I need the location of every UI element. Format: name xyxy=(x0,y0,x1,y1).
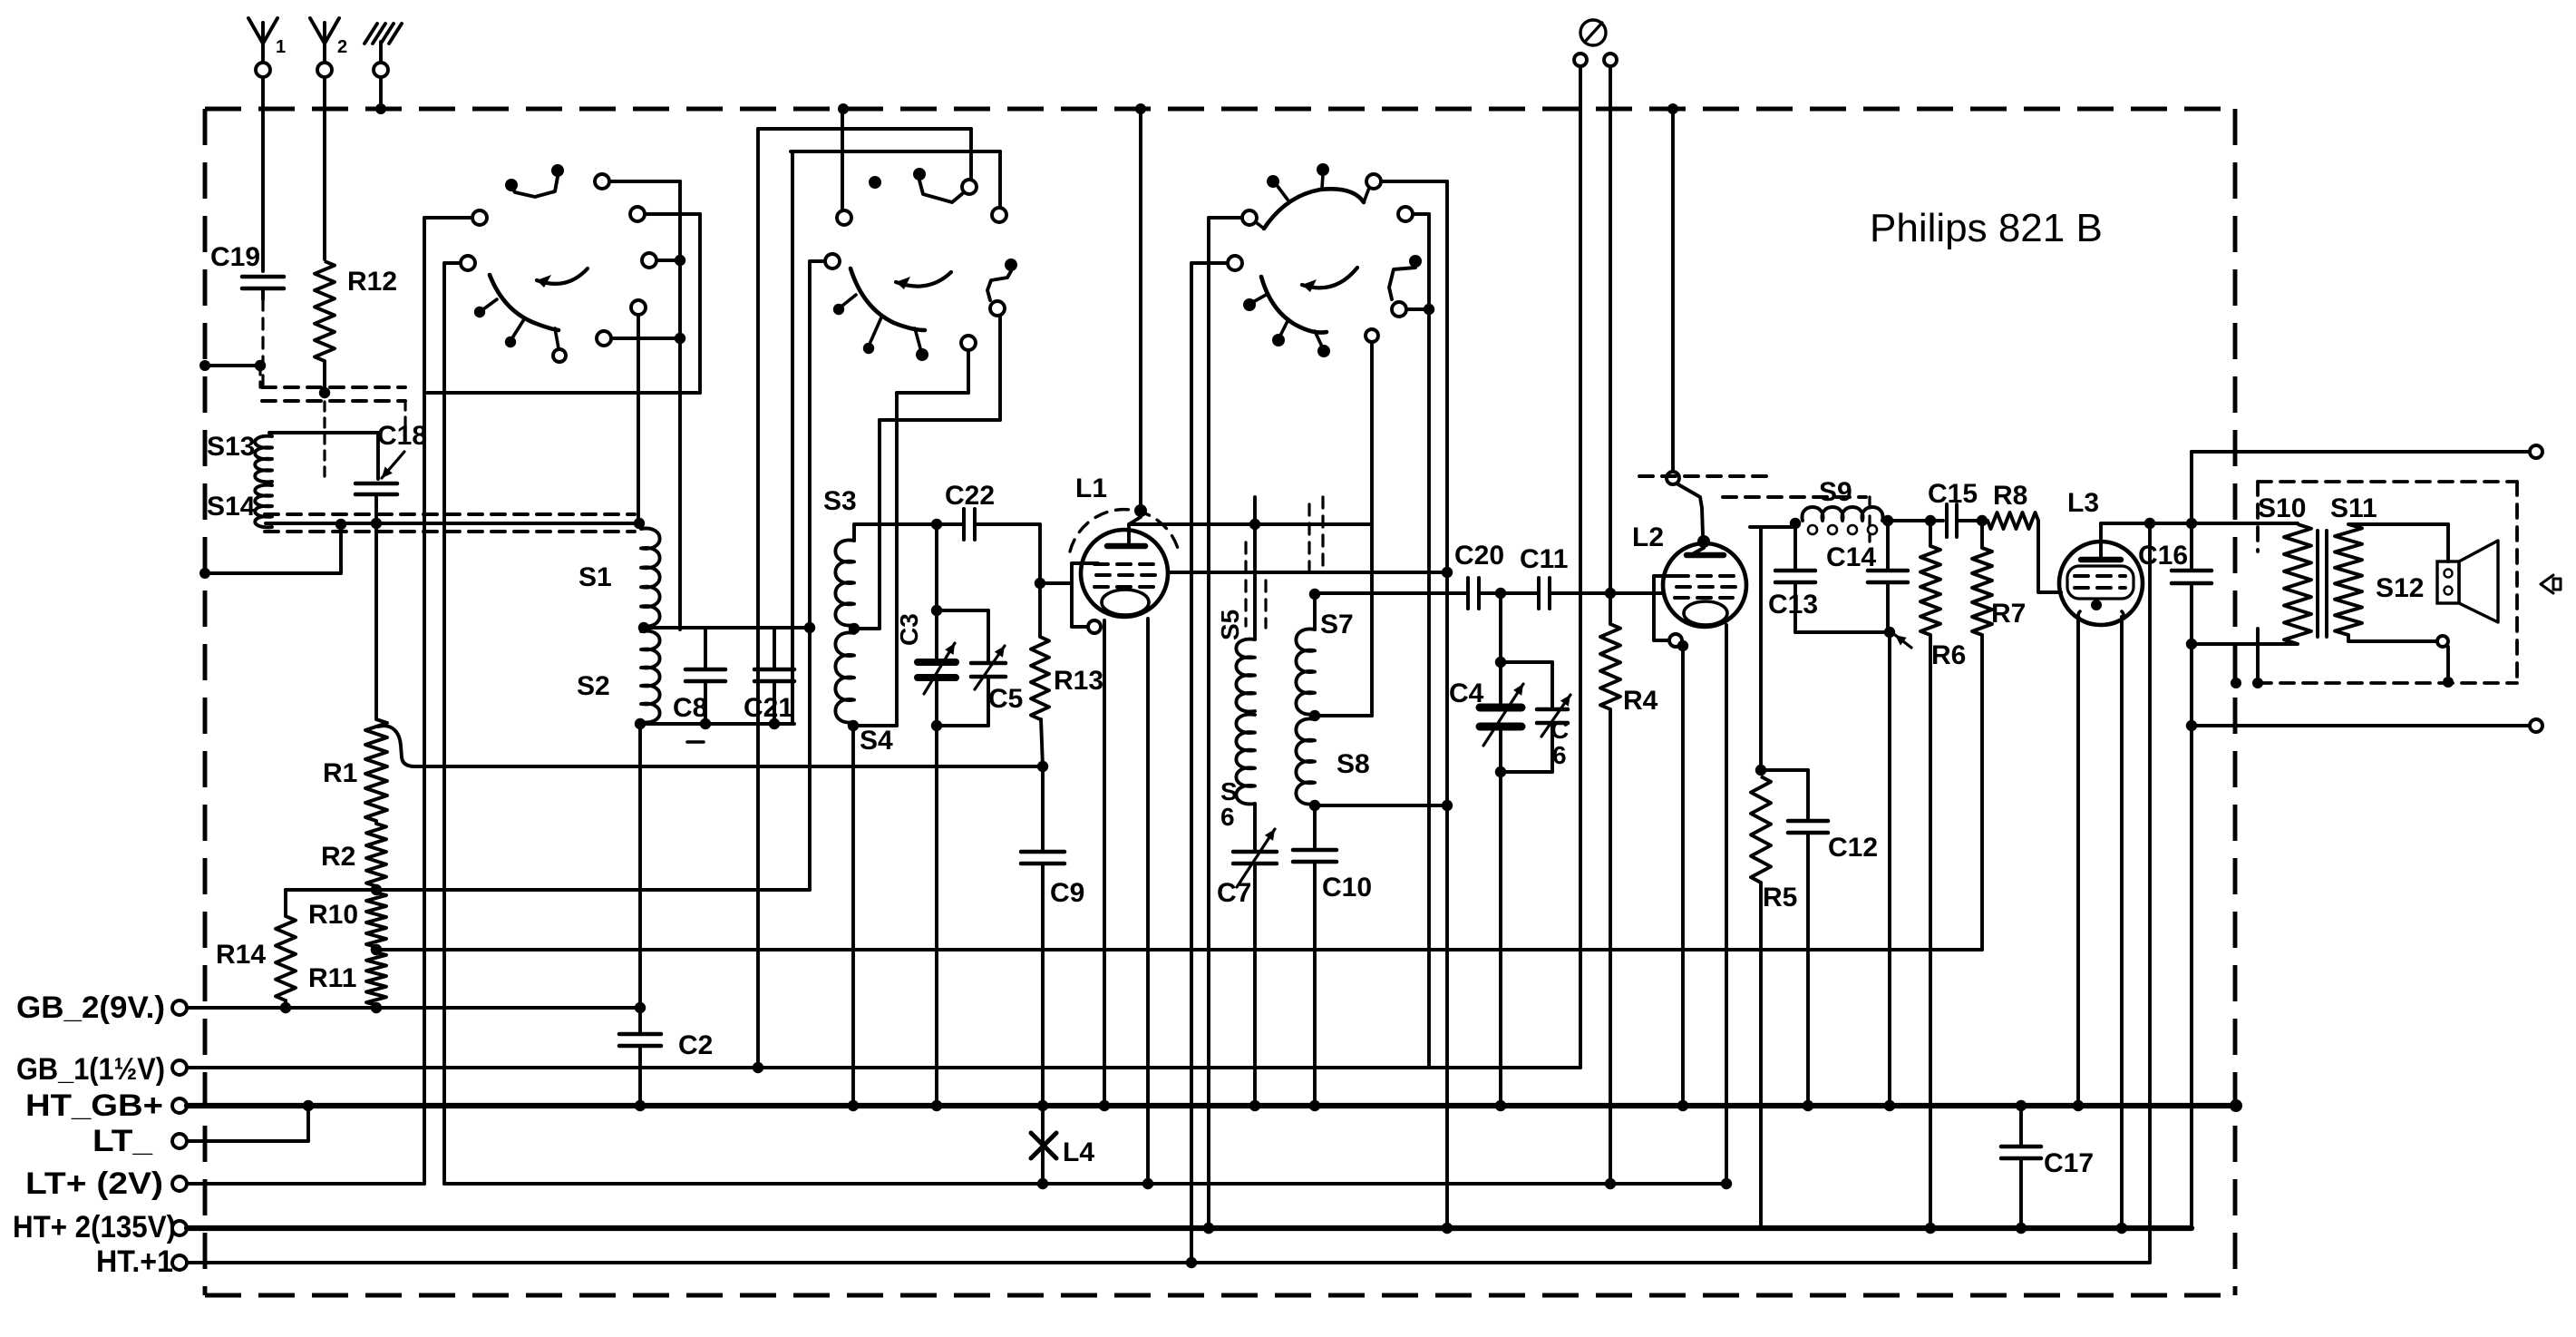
wire L1 filament left xyxy=(1103,620,1106,1106)
switch SW1 arrow xyxy=(537,268,588,288)
svg-text:C10: C10 xyxy=(1322,873,1372,903)
svg-text:HT_GB+: HT_GB+ xyxy=(25,1088,163,1123)
wire L2 filament right xyxy=(1725,625,1728,1184)
wire C11 to L2 grid xyxy=(1550,588,1663,599)
wire S14 row dashed upper xyxy=(265,512,635,516)
svg-text:L3: L3 xyxy=(2067,488,2099,518)
svg-text:S5: S5 xyxy=(1216,610,1244,640)
resistor R11 label xyxy=(308,963,356,993)
coil S4 xyxy=(835,632,859,731)
svg-text:C13: C13 xyxy=(1768,590,1818,620)
svg-text:R12: R12 xyxy=(347,267,397,297)
wire L1 grid row xyxy=(1168,567,1453,578)
capacitor C12 label xyxy=(1828,833,1878,863)
wire S1 tap row xyxy=(644,622,815,633)
capacitor C13 xyxy=(1775,523,1815,632)
wire C19 shield dashed xyxy=(261,299,264,385)
resistor R6 xyxy=(1920,521,1940,1228)
capacitor C11 label xyxy=(1520,544,1568,574)
coil S13 label xyxy=(207,432,255,462)
resistor R14 label xyxy=(216,940,266,970)
svg-text:S14: S14 xyxy=(207,492,256,522)
capacitor C14 label xyxy=(1826,542,1876,572)
capacitor C18 label xyxy=(377,421,427,451)
capacitor C22 xyxy=(964,509,975,540)
coil S1 xyxy=(638,529,660,634)
capacitor C2 label xyxy=(678,1030,713,1060)
capacitor C12 xyxy=(1761,770,1828,1106)
svg-text:S1: S1 xyxy=(578,562,612,592)
svg-text:C15: C15 xyxy=(1928,479,1978,509)
svg-text:C12: C12 xyxy=(1828,833,1878,863)
wire L2 filament left xyxy=(1681,646,1685,1106)
coil S7 xyxy=(1296,589,1320,721)
resistor R12 label xyxy=(347,267,397,297)
wire SW3 right drop 2 xyxy=(1445,181,1449,1228)
coil S8 xyxy=(1296,718,1320,811)
svg-text:HT+ 2(135V): HT+ 2(135V) xyxy=(13,1210,176,1244)
resistor R10 xyxy=(366,893,386,955)
capacitor C3 xyxy=(918,524,956,731)
transformer S11 label xyxy=(2330,493,2377,523)
svg-text:S: S xyxy=(1220,777,1238,805)
capacitor C5 label xyxy=(988,684,1023,714)
coil S13 xyxy=(255,436,272,483)
wire chassis to SW2 xyxy=(841,109,844,210)
wire grid ring to cap xyxy=(1677,483,1703,535)
wire chassis dashed border right xyxy=(2233,109,2238,1295)
coil S8 label xyxy=(1337,749,1370,779)
tube L1 label xyxy=(1075,473,1107,503)
wire SW3 right drop 1 xyxy=(1427,214,1431,1068)
wire L3 filament left xyxy=(2076,619,2080,1106)
capacitor C11 xyxy=(1539,578,1550,609)
tube L3 label xyxy=(2067,488,2099,518)
coil shield dashes b xyxy=(1264,581,1267,628)
switch SW1 contact c xyxy=(595,174,680,189)
transformer S10 label xyxy=(2258,493,2306,523)
wire C15 to R8 xyxy=(1957,515,1988,526)
wire S4 down xyxy=(851,726,855,1106)
wire L1 grid cap up xyxy=(1139,109,1142,504)
speaker icon xyxy=(2541,575,2561,593)
svg-text:R11: R11 xyxy=(308,963,356,993)
svg-text:R7: R7 xyxy=(1991,599,2026,629)
wire SW1 right drop 2 xyxy=(698,214,702,393)
resistor R12 xyxy=(315,261,335,361)
svg-text:S13: S13 xyxy=(207,432,255,462)
wire L2 cathode bracket xyxy=(1654,576,1688,651)
wire L1 plate row xyxy=(1129,519,1372,530)
wire SW1 right drop 1 xyxy=(678,181,682,629)
svg-text:6: 6 xyxy=(1552,741,1567,769)
wire LT- row xyxy=(187,1106,308,1141)
wire C13 junction down xyxy=(1888,632,1891,1106)
capacitor C4 arrow xyxy=(1483,684,1523,746)
wire L2 plate to S9 xyxy=(1750,525,1795,529)
wire C8 C21 bottom row xyxy=(637,718,794,729)
switch SW3 contact right mid xyxy=(1389,255,1434,317)
capacitor C2 xyxy=(619,1008,661,1106)
svg-text:1: 1 xyxy=(276,37,286,57)
terminal GB-1 label xyxy=(16,1052,165,1087)
coil S14 label xyxy=(207,492,256,522)
wire SW3 left drop 2 xyxy=(1203,218,1214,1234)
lamp L4 xyxy=(1031,1106,1056,1184)
wire S11 top xyxy=(2348,524,2448,561)
svg-text:GB_1(1½V): GB_1(1½V) xyxy=(16,1052,165,1087)
capacitor C19 label xyxy=(210,242,260,272)
switch SW2 contact a xyxy=(837,210,851,225)
wire SW2 frame outer xyxy=(758,127,971,131)
terminal HT+1 label xyxy=(96,1244,173,1279)
svg-text:HT.+1: HT.+1 xyxy=(96,1244,173,1279)
node chassis top junction D xyxy=(1667,103,1678,114)
coil S6 xyxy=(1236,715,1255,805)
wire chassis to L2 grid xyxy=(1671,109,1675,472)
wire L1 filament right xyxy=(1146,619,1150,1184)
node chassis left junction B xyxy=(199,568,210,579)
resistor R7 label xyxy=(1991,599,2026,629)
resistor R13 label xyxy=(1054,666,1103,696)
speaker S12 xyxy=(2437,541,2498,622)
node chassis top junction C xyxy=(1135,103,1146,114)
transformer S11 xyxy=(2335,524,2362,635)
terminal HT+2 xyxy=(172,1221,187,1235)
wire shield stub xyxy=(205,360,266,371)
svg-text:R5: R5 xyxy=(1763,883,1797,912)
lamp L4 label xyxy=(1063,1137,1094,1167)
wire SW2-e down xyxy=(880,316,1000,629)
antenna Y2 xyxy=(310,18,347,77)
svg-text:L2: L2 xyxy=(1632,522,1664,552)
svg-text:2: 2 xyxy=(337,37,347,57)
wire speaker box dashed top xyxy=(2258,480,2517,483)
wire ground to chassis xyxy=(379,77,383,109)
wire speaker box dashed left xyxy=(2256,482,2260,551)
capacitor C5 xyxy=(937,610,1006,726)
wire S8 bottom row xyxy=(1315,800,1453,811)
capacitor C9 xyxy=(1021,766,1064,1106)
resistor R1 xyxy=(365,719,387,821)
svg-text:L4: L4 xyxy=(1063,1137,1094,1167)
tube L3 xyxy=(2059,542,2143,625)
wire Y2 down xyxy=(323,77,326,259)
wire S14 row xyxy=(266,518,645,529)
coil S2 label xyxy=(577,671,610,701)
switch SW1 top contact wire xyxy=(505,164,564,197)
coil S9 xyxy=(1790,507,1893,534)
terminal LT+ xyxy=(172,1176,187,1191)
wire SW3 contact-a wire xyxy=(1209,216,1242,220)
capacitor C22 label xyxy=(945,481,995,511)
resistor R2 xyxy=(366,821,386,886)
coil S7 label xyxy=(1320,610,1354,639)
wire S2 down xyxy=(635,724,646,1013)
resistor R4 xyxy=(1600,588,1620,1184)
resistor R7 xyxy=(1972,521,1992,950)
coil S14 xyxy=(255,485,272,528)
node minus mark xyxy=(687,740,704,744)
svg-text:R1: R1 xyxy=(323,758,357,788)
resistor R10 label xyxy=(308,900,358,930)
capacitor C6 label xyxy=(1550,716,1569,769)
capacitor C15 label xyxy=(1928,479,1978,509)
switch SW2 contact b xyxy=(913,168,977,202)
wire S9 to C15 xyxy=(1888,515,1943,526)
svg-text:S11: S11 xyxy=(2330,493,2377,523)
capacitor C7 xyxy=(1233,804,1277,1106)
wire LT+ row b xyxy=(444,1178,1732,1189)
capacitor C20 xyxy=(1468,578,1479,609)
svg-text:S9: S9 xyxy=(1819,477,1852,507)
coil shield dashes a xyxy=(1244,542,1247,626)
wire LT+ row a xyxy=(187,1182,424,1186)
svg-text:Philips 821 B: Philips 821 B xyxy=(1870,206,2103,250)
resistor R8 label xyxy=(1993,481,2027,511)
svg-text:C18: C18 xyxy=(377,421,427,451)
coil S4 label xyxy=(860,726,893,756)
capacitor C7 arrow xyxy=(1237,829,1275,887)
resistor R2 label xyxy=(321,842,355,872)
svg-text:C9: C9 xyxy=(1050,878,1084,908)
coil S6 label xyxy=(1220,777,1238,831)
switch SW1 contact a xyxy=(424,210,487,225)
wire SW2 corner b xyxy=(969,129,973,179)
tube L2 label xyxy=(1632,522,1664,552)
svg-text:R8: R8 xyxy=(1993,481,2027,511)
terminal GB-2 label xyxy=(16,991,165,1025)
resistor R13 xyxy=(1031,583,1049,772)
svg-text:C3: C3 xyxy=(895,613,923,646)
svg-text:C20: C20 xyxy=(1454,541,1504,571)
wire C4 down xyxy=(1499,772,1502,1106)
capacitor C15 xyxy=(1947,504,1957,537)
terminal HT+1 xyxy=(172,1255,187,1270)
resistor R5 xyxy=(1751,776,1771,1228)
capacitor C4 label xyxy=(1449,678,1484,708)
terminal LT+ label xyxy=(25,1166,163,1201)
wire pickup-2 down xyxy=(1609,66,1612,588)
svg-text:S10: S10 xyxy=(2258,493,2306,523)
coil S9 label xyxy=(1819,477,1852,507)
wire S4 bottom xyxy=(853,724,897,727)
svg-text:C16: C16 xyxy=(2138,541,2188,571)
switch SW2 contact f xyxy=(961,336,976,393)
wire L1 cathode bracket xyxy=(1072,563,1101,633)
capacitor C14 xyxy=(1868,521,1908,632)
wire S7 to C20 xyxy=(1315,591,1468,595)
wire R2 junction row xyxy=(286,884,810,895)
wire S11 bottom xyxy=(2348,635,2454,688)
capacitor C18 arrow xyxy=(382,452,404,478)
svg-text:C5: C5 xyxy=(988,684,1023,714)
switch SW1 rotor arc xyxy=(474,275,566,362)
wire SW1-b down xyxy=(442,263,446,1184)
resistor R11 xyxy=(366,952,386,1013)
wire chassis dashed border bottom xyxy=(205,1293,2235,1298)
wire SW2-f down xyxy=(897,393,968,726)
resistor R14 xyxy=(276,890,296,1013)
wire SW3 left drop 1 xyxy=(1186,263,1197,1268)
switch SW1 contact b xyxy=(444,256,475,270)
switch SW1 contact g xyxy=(631,300,646,522)
capacitor C16 label xyxy=(2138,541,2188,571)
switch SW2 contact d xyxy=(810,254,840,268)
wire S3-C22 row xyxy=(854,519,964,530)
capacitor C7 label xyxy=(1217,878,1251,908)
svg-text:R13: R13 xyxy=(1054,666,1103,696)
svg-text:S12: S12 xyxy=(2376,573,2424,603)
node chassis left junction A xyxy=(199,360,210,371)
switch SW2 arrow xyxy=(896,272,951,289)
resistor R1 label xyxy=(323,758,357,788)
wire S3 tap xyxy=(854,627,880,630)
antenna Y1 xyxy=(248,18,286,77)
terminal HT+2 label xyxy=(13,1210,176,1244)
coil shield dashes d xyxy=(1321,497,1324,567)
terminal LT- label xyxy=(92,1124,153,1158)
wire C3 down xyxy=(935,726,938,1106)
capacitor C9 label xyxy=(1050,878,1084,908)
terminal HT-GB+ xyxy=(172,1098,187,1113)
tube L2 xyxy=(1663,535,1746,627)
resistor R4 label xyxy=(1623,686,1658,716)
capacitor C10 label xyxy=(1322,873,1372,903)
capacitor C21 label xyxy=(744,693,793,723)
tube L2 shield dashed xyxy=(1639,476,1870,542)
svg-text:C19: C19 xyxy=(210,242,260,272)
svg-text:R2: R2 xyxy=(321,842,355,872)
wire to S5 top xyxy=(1253,497,1257,639)
switch SW2 rotor arc xyxy=(833,268,928,361)
capacitor C8 label xyxy=(673,693,707,723)
terminal HT-GB+ label xyxy=(25,1088,163,1123)
wire speaker terminal top xyxy=(2192,445,2542,458)
wire S7 S8 tap xyxy=(1315,714,1372,717)
wire SW2-d down xyxy=(808,261,812,890)
wire HT1 riser xyxy=(2148,523,2152,1263)
capacitor C13 label xyxy=(1768,590,1818,620)
transformer core xyxy=(2318,531,2327,637)
coil S2 xyxy=(635,631,660,730)
wire S10 bottom xyxy=(2192,642,2298,646)
svg-text:S2: S2 xyxy=(577,671,610,701)
switch SW3 arrow xyxy=(1302,268,1357,292)
coil S3 label xyxy=(823,486,857,516)
switch SW1 contact e xyxy=(642,253,685,268)
coil S5 label xyxy=(1216,610,1244,640)
wire SW1-a down xyxy=(423,218,426,1184)
svg-text:S4: S4 xyxy=(860,726,893,756)
wire speaker box dashed right xyxy=(2515,482,2519,683)
switch SW2 contact c xyxy=(992,151,1006,222)
wire C18 to R1 xyxy=(374,523,378,719)
wire HT+1 row xyxy=(187,1261,2150,1264)
wire GB-2 row xyxy=(187,1006,640,1010)
switch SW2 contact e xyxy=(987,259,1017,316)
wire SW2 frame inner xyxy=(791,150,1000,153)
svg-text:R6: R6 xyxy=(1931,640,1966,670)
wire S13 box xyxy=(269,433,378,479)
resistor R5 label xyxy=(1763,883,1797,912)
ground terminal xyxy=(365,24,402,77)
capacitor C21 xyxy=(754,628,794,724)
svg-text:C7: C7 xyxy=(1217,878,1251,908)
svg-text:C11: C11 xyxy=(1520,544,1568,574)
wire L3 plate up xyxy=(2099,523,2103,560)
wire chassis dashed border left xyxy=(203,109,208,1295)
pickup terminal 2 xyxy=(1604,54,1617,66)
capacitor C20 label xyxy=(1454,541,1504,571)
wire R1 hook row xyxy=(378,726,1043,766)
node AVC arrow xyxy=(1895,635,1911,648)
wire GB-1 row xyxy=(187,1066,1580,1069)
switch SW3 contact left mid xyxy=(1191,256,1242,270)
capacitor C3 arrow xyxy=(924,643,955,694)
resistor R8 xyxy=(1988,512,2061,592)
svg-text:GB_2(9V.): GB_2(9V.) xyxy=(16,991,165,1025)
capacitor C18 xyxy=(355,483,397,529)
wire S7S8 to switch xyxy=(1366,329,1378,716)
capacitor C6 arrow xyxy=(1541,695,1570,737)
wire Y1 down xyxy=(261,77,265,271)
svg-text:C17: C17 xyxy=(2044,1148,2094,1178)
wire C22 to L1 xyxy=(975,524,1045,589)
capacitor C19 xyxy=(242,277,284,299)
tube L1 shield dashed arc xyxy=(1070,510,1179,551)
switch SW1 contact f xyxy=(597,331,685,346)
capacitor C17 xyxy=(2001,1106,2041,1228)
wire plate tap down xyxy=(1755,527,1766,776)
wire shield dashes xyxy=(260,366,405,479)
wire SW3 top wire xyxy=(1381,180,1447,183)
node chassis top junction B xyxy=(838,103,849,114)
wire L3 plate row xyxy=(2101,518,2298,529)
wire SW2 frame inner drop xyxy=(791,151,794,724)
svg-text:6: 6 xyxy=(1220,803,1235,831)
svg-text:R10: R10 xyxy=(308,900,358,930)
terminal GB-1 xyxy=(172,1060,187,1075)
wire HT-GB+ row xyxy=(187,1099,2242,1112)
svg-text:S3: S3 xyxy=(823,486,857,516)
svg-text:L1: L1 xyxy=(1075,473,1107,503)
wire speaker box stub xyxy=(2231,629,2263,688)
wire HT+2 row xyxy=(187,1223,2192,1234)
capacitor C6 xyxy=(1501,662,1568,772)
tube L2 grid cap ring xyxy=(1667,472,1679,484)
wire C20-C11 xyxy=(1479,588,1539,599)
svg-text:LT_: LT_ xyxy=(92,1124,153,1158)
capacitor C8 xyxy=(685,628,725,724)
svg-text:R4: R4 xyxy=(1623,686,1658,716)
coil shield dashes c xyxy=(1307,504,1310,570)
speaker S12 label xyxy=(2376,573,2424,603)
transformer S10 xyxy=(2284,524,2311,644)
wire L3 filament right xyxy=(2120,617,2124,1228)
wire SW1 bottom xyxy=(424,391,700,395)
wire speaker terminal bottom xyxy=(2192,719,2542,732)
wire R12 bottom xyxy=(319,361,330,398)
coil S1 label xyxy=(578,562,612,592)
svg-text:S8: S8 xyxy=(1337,749,1370,779)
node ground-to-chassis xyxy=(375,103,386,114)
svg-text:R14: R14 xyxy=(216,940,266,970)
terminal GB-2 xyxy=(172,1000,187,1015)
switch SW3 rotor arc top xyxy=(1242,163,1381,229)
terminal LT- xyxy=(172,1134,187,1148)
pickup terminal 1 xyxy=(1574,54,1587,66)
